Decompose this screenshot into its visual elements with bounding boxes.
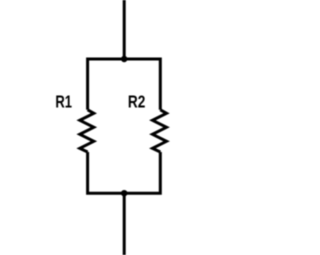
svg-text:R1: R1	[55, 92, 72, 112]
node bottom junction	[121, 190, 128, 197]
wire right branch bottom (R2 to bottom rail)	[124, 152, 160, 193]
node top junction	[121, 56, 128, 63]
wire left branch top (to R1)	[88, 59, 125, 110]
resistor R1	[80, 110, 94, 152]
svg-text:R2: R2	[128, 92, 145, 112]
wire bottom vertical lead	[123, 193, 126, 255]
wire top vertical lead	[123, 0, 126, 59]
wire right branch top (to R2)	[124, 59, 160, 110]
wire left branch bottom (R1 to bottom rail)	[88, 152, 125, 193]
resistor R2	[153, 110, 167, 152]
